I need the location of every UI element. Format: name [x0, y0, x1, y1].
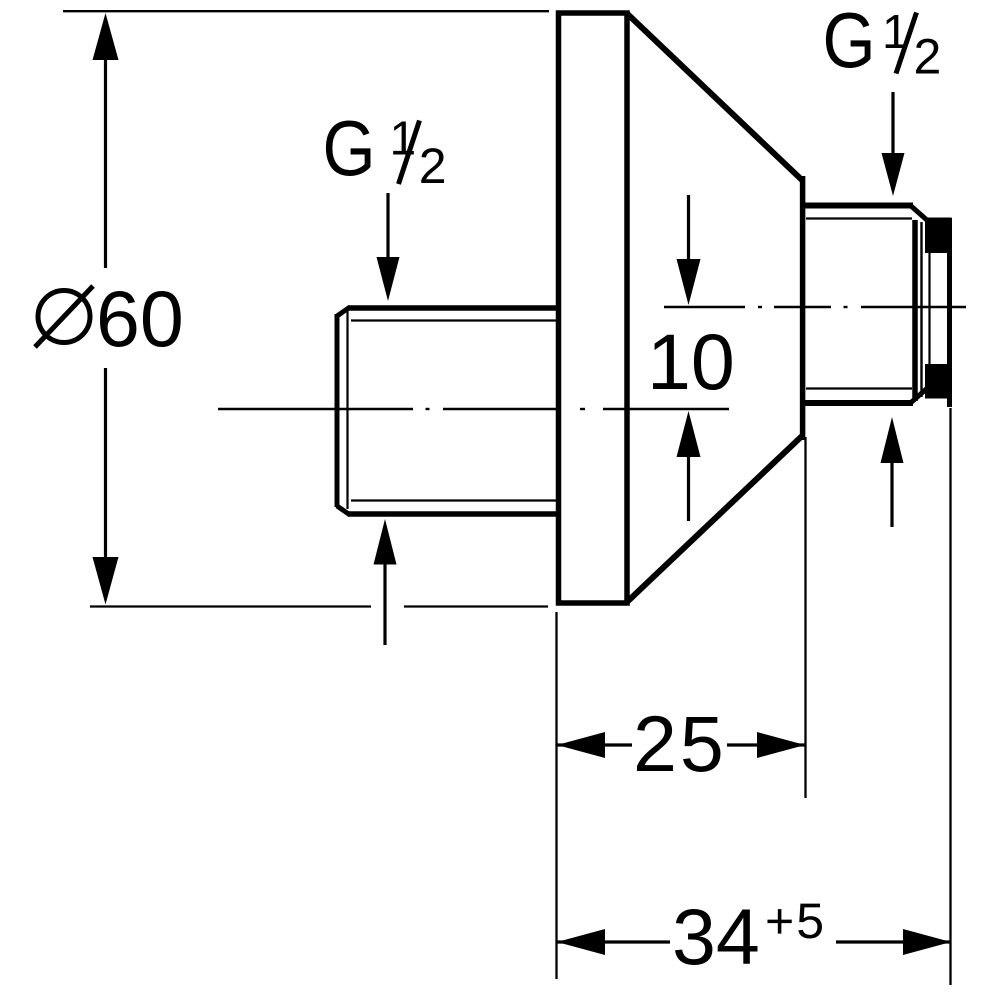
svg-text:60: 60 [96, 274, 184, 363]
svg-text:34: 34 [672, 892, 760, 981]
svg-text:+5: +5 [765, 893, 826, 949]
svg-text:10: 10 [647, 317, 735, 406]
svg-text:2: 2 [419, 138, 447, 194]
svg-text:2: 2 [913, 29, 941, 85]
svg-text:25: 25 [633, 699, 727, 788]
svg-text:G: G [323, 105, 376, 192]
svg-text:G: G [823, 0, 876, 84]
